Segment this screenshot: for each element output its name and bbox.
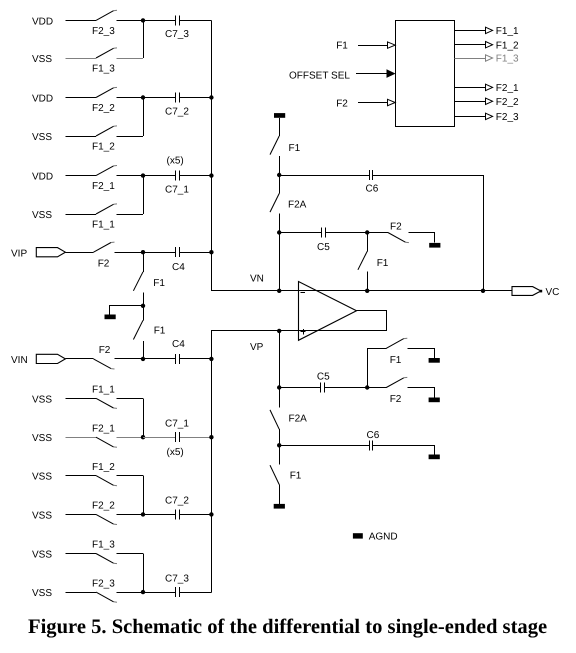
svg-text:VDD: VDD — [32, 16, 53, 27]
wire VIN to switch F2 — [65, 358, 93, 360]
svg-text:C7_2: C7_2 — [165, 106, 189, 117]
svg-text:F1_1: F1_1 — [92, 220, 115, 231]
wire mid node to ground — [110, 306, 144, 315]
svg-text:Figure 5. Schematic of the dif: Figure 5. Schematic of the differential … — [28, 616, 547, 638]
junction bus C7_1 — [209, 173, 213, 177]
junction mid node — [141, 304, 145, 308]
junction node row F2_3 — [141, 18, 145, 22]
wire row F1_2 up to junction — [143, 98, 145, 137]
switch F1_3 — [96, 554, 117, 564]
junction C6 node lower — [277, 443, 281, 447]
wire switch F1 to VN — [367, 271, 369, 290]
svg-text:F1_2: F1_2 — [92, 142, 115, 153]
junction VIN node — [141, 357, 145, 361]
op-amp U1 — [299, 282, 357, 341]
svg-text:F2_3: F2_3 — [92, 578, 115, 589]
svg-text:F1_3: F1_3 — [92, 540, 115, 551]
wire switch F1_2 to node — [117, 475, 144, 477]
svg-text:F2: F2 — [99, 345, 111, 356]
wire capacitor C7_3 to bus — [181, 20, 212, 22]
wire C5 node to switch F2 — [367, 232, 388, 234]
wire output F1_1 — [454, 30, 485, 32]
switch F2 (VIN) — [94, 359, 115, 369]
wire VSS to switch F2_2 — [66, 514, 97, 516]
wire capacitor C7_1 to bus — [181, 175, 212, 177]
wire switch F1 to ground — [279, 485, 281, 504]
junction node row F2_3 — [141, 590, 145, 594]
wire VIP to switch F2 — [65, 252, 93, 254]
capacitor C7_1 — [172, 175, 175, 177]
svg-text:VIN: VIN — [11, 355, 28, 366]
input OFFSET SEL solid arrowhead — [387, 69, 396, 78]
ground (lower F2) — [429, 398, 440, 403]
switch F1 (lower mid) wire stub — [143, 306, 145, 321]
input F1 arrowhead — [388, 42, 396, 48]
switch F1_1 — [96, 204, 117, 214]
svg-text:OFFSET SEL: OFFSET SEL — [289, 70, 350, 81]
svg-text:F2A: F2A — [289, 414, 308, 425]
ground (lower C6) — [429, 455, 440, 460]
svg-text:F2_2: F2_2 — [496, 97, 519, 108]
svg-text:F1: F1 — [153, 278, 165, 289]
svg-text:C5: C5 — [317, 242, 330, 253]
wire C5 lower row right — [326, 387, 367, 389]
wire switch F2_1 to node — [117, 175, 144, 177]
svg-text:C7_2: C7_2 — [165, 496, 189, 507]
switch F2_1 — [96, 166, 117, 176]
switch F1_2 — [96, 126, 117, 136]
svg-text:C6: C6 — [367, 430, 380, 441]
junction VP / left column — [277, 329, 281, 333]
junction bus C4 bottom — [209, 357, 213, 361]
svg-text:C7_3: C7_3 — [165, 573, 189, 584]
wire VSS to switch F1_2 — [66, 136, 97, 138]
svg-text:F1: F1 — [336, 40, 348, 51]
switch F1_3 — [96, 48, 117, 58]
switch F2_1 — [96, 437, 117, 447]
wire VSS to switch F2_1 — [66, 437, 97, 439]
capacitor C4 (top) — [172, 252, 175, 254]
svg-text:C7_1: C7_1 — [165, 419, 189, 430]
svg-text:F1: F1 — [154, 326, 166, 337]
capacitor C7_2 — [172, 514, 175, 516]
junction node row F2_1 — [141, 173, 145, 177]
wire top bus / VN net — [212, 21, 484, 291]
capacitor C5 (lower) — [317, 387, 320, 389]
svg-text:F2_2: F2_2 — [92, 103, 115, 114]
wire node to capacitor C7_3 — [143, 20, 174, 22]
wire C6 row left — [279, 175, 368, 177]
switch F2 (VIP) — [94, 242, 115, 252]
wire switch F1 to mid node — [143, 292, 145, 305]
wire output F2_1 — [454, 87, 485, 89]
wire C5 row right — [327, 232, 367, 234]
svg-text:F2: F2 — [336, 98, 348, 109]
switch F1 (lower mid) blade — [133, 320, 143, 339]
svg-text:VDD: VDD — [32, 172, 53, 183]
svg-text:F2A: F2A — [288, 199, 307, 210]
wire VSS to switch F1_1 — [66, 214, 97, 216]
output F1_3 arrowhead — [486, 55, 493, 61]
wire switch F1 to ground — [408, 349, 435, 359]
junction C5 node lower-right — [365, 385, 369, 389]
wire VSS to switch F2_3 — [66, 592, 97, 594]
svg-text:(x5): (x5) — [167, 447, 184, 458]
switch F2_3 — [96, 592, 117, 602]
port VC tip nub — [540, 290, 543, 293]
wire switch F2_1 to node — [117, 437, 144, 439]
switch F1 (upper mid) blade — [133, 272, 143, 291]
wire input F1 — [358, 45, 388, 47]
wire node to capacitor C7_2 — [143, 514, 174, 516]
wire switch F2_3 to node — [117, 592, 144, 594]
wire C5 node to switch F2 — [367, 387, 386, 389]
switch F1 (upper column) blade — [270, 136, 279, 155]
svg-text:F1_2: F1_2 — [92, 462, 115, 473]
svg-text:(x5): (x5) — [167, 156, 184, 167]
junction VIP node — [141, 250, 145, 254]
svg-text:F2: F2 — [390, 394, 402, 405]
wire switch F1_3 to node — [117, 553, 144, 555]
wire C6 lower row left — [279, 445, 368, 447]
wire row F1_3 up to junction — [143, 20, 145, 58]
svg-text:F2: F2 — [98, 258, 110, 269]
capacitor C5 (upper) — [318, 232, 321, 234]
wire switch F2_3 to node — [117, 20, 144, 22]
junction VN / F1 — [365, 289, 369, 293]
wire row F1_2 down to junction — [143, 476, 145, 515]
switch F1 (lower right) stub — [368, 349, 387, 388]
junction bus C7_2 — [209, 95, 213, 99]
svg-text:VDD: VDD — [32, 94, 53, 105]
wire C6 row right — [375, 176, 484, 291]
wire switch F2 to ground — [409, 233, 435, 243]
switch F1 (lower column) stub — [279, 445, 281, 464]
junction bus C4 top — [209, 250, 213, 254]
switch F2A (lower) stub — [279, 388, 281, 408]
svg-text:VSS: VSS — [32, 510, 52, 521]
svg-text:VSS: VSS — [32, 54, 52, 65]
svg-text:F1_3: F1_3 — [496, 54, 519, 65]
svg-text:C4: C4 — [172, 339, 185, 350]
svg-text:VSS: VSS — [32, 472, 52, 483]
junction C5 node upper-right — [365, 230, 369, 234]
switch F1 (upper right) stub — [367, 233, 369, 252]
svg-text:F2_1: F2_1 — [92, 423, 115, 434]
svg-text:VSS: VSS — [32, 433, 52, 444]
wire node to capacitor C7_1 — [143, 437, 174, 439]
wire input F2 — [358, 102, 388, 104]
switch F2A (lower) blade — [270, 410, 279, 429]
ground (lower F1) — [429, 358, 440, 363]
svg-text:F1: F1 — [390, 355, 402, 366]
wire capacitor C4 to bus — [181, 252, 212, 254]
capacitor C7_3 — [172, 592, 175, 594]
svg-text:VSS: VSS — [32, 550, 52, 561]
output F1_2 arrowhead — [486, 42, 493, 48]
switch F1 (upper right) blade — [358, 251, 367, 269]
wire switch F2_2 to node — [117, 514, 144, 516]
output F2_1 arrowhead — [486, 84, 493, 90]
switch F2_2 — [96, 514, 117, 524]
wire node to capacitor C7_2 — [143, 97, 174, 99]
switch F2A (upper) blade — [270, 194, 279, 213]
switch F1_2 — [96, 476, 117, 486]
wire row F1_3 down to junction — [143, 554, 145, 593]
junction C6 node upper — [277, 173, 281, 177]
svg-text:C7_3: C7_3 — [165, 29, 189, 40]
wire capacitor C4 to bus — [181, 358, 212, 360]
svg-text:VSS: VSS — [32, 210, 52, 221]
wire switch F1_3 to node — [117, 58, 144, 60]
wire capacitor C7_1 to bus — [181, 437, 212, 439]
junction bus C7_2 bottom — [209, 512, 213, 516]
output F1_1 arrowhead — [486, 27, 493, 33]
svg-text:C4: C4 — [172, 262, 185, 273]
wire VSS to switch F1_2 — [66, 475, 97, 477]
switch F2 (upper right) — [388, 233, 409, 243]
junction node row F2_2 — [141, 95, 145, 99]
svg-text:F2_3: F2_3 — [496, 112, 519, 123]
wire VSS to switch F1_3 — [66, 553, 97, 555]
svg-text:C7_1: C7_1 — [165, 184, 189, 195]
svg-text:F2: F2 — [390, 221, 402, 232]
wire upper-left column to VN — [279, 233, 281, 291]
op-amp non-inverting input symbol — [300, 329, 305, 335]
wire output F1_2 — [454, 44, 485, 46]
wire switch F2A to C5 node — [279, 214, 281, 233]
wire row F1_1 down to junction — [143, 398, 145, 437]
svg-text:F2_1: F2_1 — [92, 181, 115, 192]
wire output F2_2 — [454, 101, 485, 103]
svg-text:F2_2: F2_2 — [92, 501, 115, 512]
wire row F1_1 up to junction — [143, 176, 145, 214]
switch F1 (upper mid) wire stub — [143, 252, 145, 272]
wire node to capacitor C4 — [143, 252, 174, 254]
switch F1 (lower right) — [386, 338, 407, 348]
port VC symbol — [512, 287, 541, 296]
svg-text:VC: VC — [546, 287, 560, 298]
block phase generator box — [396, 21, 455, 127]
switch F1 (lower column) blade — [270, 465, 279, 484]
svg-text:F1_2: F1_2 — [496, 40, 519, 51]
capacitor C6 (lower) — [366, 445, 369, 447]
ground (mid) — [105, 315, 116, 320]
svg-text:VSS: VSS — [32, 588, 52, 599]
wire capacitor C7_2 to bus — [181, 97, 212, 99]
wire switch F1 to C6 node — [279, 156, 281, 175]
junction node row F2_1 — [141, 435, 145, 439]
AGND legend symbol — [353, 533, 363, 538]
svg-text:VN: VN — [250, 273, 264, 284]
junction VN / C6 right leg — [481, 289, 485, 293]
junction node row F2_2 — [141, 512, 145, 516]
svg-text:F1_1: F1_1 — [92, 385, 115, 396]
ground (bottom of lower column) — [274, 504, 285, 509]
wire switch F1_1 to node — [117, 398, 144, 400]
ground (upper F2) — [429, 243, 440, 248]
capacitor C7_3 — [172, 20, 175, 22]
capacitor C4 (bottom) — [172, 358, 175, 360]
wire node to capacitor C7_1 — [143, 175, 174, 177]
capacitor C6 (upper) — [366, 175, 369, 177]
capacitor C7_1 — [172, 437, 175, 439]
wire VSS to switch F1_1 — [66, 398, 97, 400]
svg-text:F1: F1 — [290, 470, 302, 481]
wire switch F1 to VIN node — [143, 341, 145, 359]
svg-text:F1_1: F1_1 — [496, 26, 519, 37]
wire C5 lower row left — [279, 387, 319, 389]
wire VSS to switch F1_3 — [66, 58, 97, 60]
wire switch F2A to C6 node — [279, 429, 281, 445]
svg-text:C6: C6 — [366, 183, 379, 194]
wire switch F2 to ground — [408, 388, 435, 398]
wire VN to port VC — [483, 290, 512, 292]
wire left column VP to C5 lower — [279, 331, 281, 388]
wire bottom bus / VP net — [212, 311, 387, 593]
port VIN symbol — [36, 354, 65, 363]
wire VDD to switch F2_1 — [66, 175, 97, 177]
wire switch F2 to node — [115, 252, 144, 254]
wire C5 row left — [279, 232, 320, 234]
wire output F2_3 — [454, 116, 485, 118]
wire ground stem — [279, 118, 281, 136]
switch F2A (upper) stub — [279, 175, 281, 194]
wire VDD to switch F2_2 — [66, 97, 97, 99]
svg-text:C5: C5 — [317, 371, 330, 382]
wire switch F2 to node — [115, 358, 144, 360]
wire node to capacitor C4 — [143, 358, 174, 360]
svg-text:F1_3: F1_3 — [92, 64, 115, 75]
wire switch F1_2 to node — [117, 136, 144, 138]
junction bus C7_1 bottom — [209, 435, 213, 439]
svg-text:AGND: AGND — [369, 531, 398, 542]
switch F2 (lower right) — [386, 377, 407, 387]
wire output F1_3 — [454, 58, 485, 60]
wire C6 lower row right — [375, 446, 435, 455]
svg-text:VIP: VIP — [11, 248, 27, 259]
svg-text:VP: VP — [250, 342, 264, 353]
junction C5 node upper-left — [277, 230, 281, 234]
switch F1_1 — [96, 398, 117, 408]
wire input OFFSET SEL (bold) — [356, 73, 387, 75]
svg-text:F2_1: F2_1 — [496, 83, 519, 94]
junction C5 node lower-left — [277, 385, 281, 389]
output F2_3 arrowhead — [486, 113, 493, 119]
svg-text:F1: F1 — [289, 143, 301, 154]
input F2 arrowhead — [388, 99, 396, 105]
svg-text:VSS: VSS — [32, 132, 52, 143]
svg-text:VSS: VSS — [32, 394, 52, 405]
switch F2_3 — [96, 10, 117, 20]
ground (top of upper feedback column) — [274, 113, 285, 118]
output F2_2 arrowhead — [486, 98, 493, 104]
capacitor C7_2 — [172, 97, 175, 99]
wire switch F2_2 to node — [117, 97, 144, 99]
wire node to capacitor C7_3 — [143, 592, 174, 594]
wire VDD to switch F2_3 — [66, 20, 97, 22]
svg-text:F1: F1 — [377, 258, 389, 269]
port VIP symbol — [36, 248, 65, 257]
junction VN / left column — [277, 289, 281, 293]
wire switch F1_1 to node — [117, 214, 144, 216]
switch F2_2 — [96, 87, 117, 97]
op-amp inverting input symbol — [301, 292, 306, 294]
wire capacitor C7_2 to bus — [181, 514, 212, 516]
svg-text:F2_3: F2_3 — [92, 26, 115, 37]
wire capacitor C7_3 to bus — [181, 592, 212, 594]
